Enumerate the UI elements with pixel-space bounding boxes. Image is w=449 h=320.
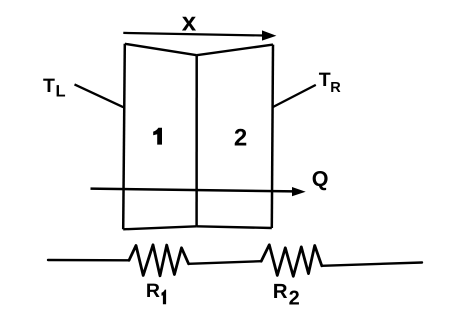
wall right edge [272,45,273,228]
svg-text:L: L [56,83,66,101]
svg-text:R: R [146,280,160,302]
wire top edge right panel [197,45,273,56]
label R1 [146,280,166,304]
x-direction arrowhead [262,30,276,40]
label TL [43,75,66,101]
svg-text:R: R [330,80,341,96]
wire bottom edge left panel [123,226,196,229]
wire Q heat-flow arrow shaft [91,189,294,192]
wall layer 1 and 2 outline: left edge [123,44,125,230]
wire right lead [322,263,422,266]
svg-text:Q: Q [312,167,329,191]
svg-text:x: x [182,7,197,37]
wire TR leader [273,85,316,107]
resistor R2 zigzag [261,245,322,276]
label TR [319,69,342,96]
svg-text:R: R [273,280,288,303]
wire left lead [48,259,129,262]
wall interface divider [195,55,198,226]
svg-text:T: T [43,75,55,97]
Q arrowhead [292,187,306,196]
wire middle lead [189,261,262,264]
svg-text:T: T [319,69,331,91]
wire TL leader [75,84,124,107]
wire bottom edge right panel [197,226,272,228]
svg-text:2: 2 [289,288,300,310]
wire x-direction arrow shaft [123,33,263,36]
resistor R1 zigzag [129,245,189,276]
label R2 [273,280,300,310]
label layer 1 [153,128,162,145]
svg-text:2: 2 [234,125,247,152]
wire top edge left panel [125,44,197,55]
